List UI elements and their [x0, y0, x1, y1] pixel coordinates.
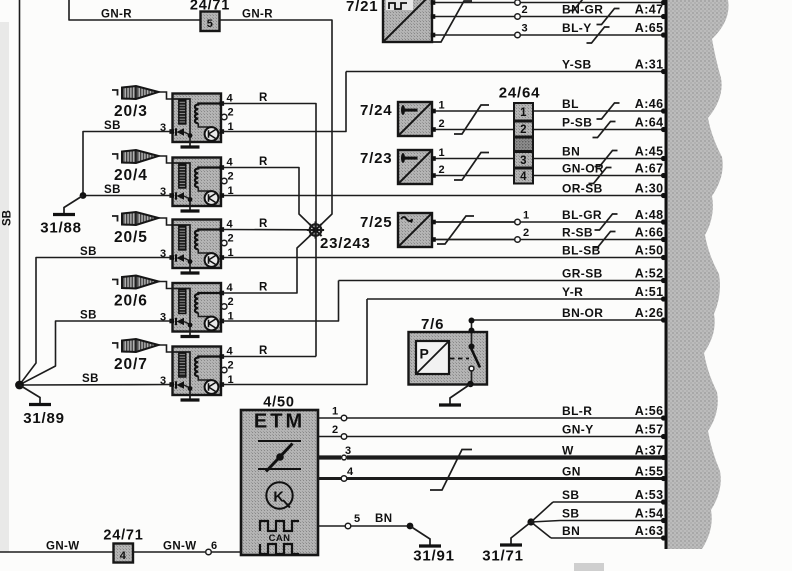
wire BL to A:46: [533, 97, 666, 119]
junction on SB wire: [80, 192, 87, 199]
svg-text:3: 3: [520, 155, 527, 167]
svg-text:BL-Y: BL-Y: [562, 21, 592, 35]
wire GN-W from left: [0, 541, 113, 553]
connector slash after 7/21: [433, 1, 472, 42]
svg-text:GN: GN: [562, 464, 581, 478]
svg-text:24/71: 24/71: [190, 0, 230, 14]
wire SB from 20/4 pin3: [83, 184, 172, 196]
svg-text:BL-R: BL-R: [562, 404, 592, 418]
wire SB vertical bus at left: [2, 0, 20, 385]
svg-text:31/88: 31/88: [40, 220, 82, 237]
svg-text:24/64: 24/64: [499, 85, 541, 102]
svg-text:2: 2: [228, 107, 235, 119]
ground node 31/89: [15, 381, 65, 427]
svg-text:A:30: A:30: [635, 181, 664, 195]
svg-text:1: 1: [439, 147, 446, 159]
scan artifact bottom right: [574, 563, 604, 571]
svg-text:2: 2: [228, 171, 235, 183]
ETM pin 4: [318, 466, 354, 481]
wire R from 20/6 pin4 to node: [222, 233, 314, 294]
svg-text:A:54: A:54: [635, 506, 664, 520]
svg-text:SB: SB: [80, 246, 97, 258]
wire GN-R feed from top: [69, 0, 200, 21]
svg-text:ETM: ETM: [254, 411, 305, 433]
ignition coil 20/5: [112, 212, 234, 273]
svg-text:20/3: 20/3: [114, 103, 148, 120]
svg-text:2: 2: [520, 124, 527, 136]
svg-text:A:52: A:52: [635, 266, 664, 280]
svg-text:GN-R: GN-R: [101, 9, 132, 21]
ECU connector torn-edge band: [666, 0, 729, 549]
svg-text:23/243: 23/243: [320, 235, 371, 252]
svg-text:A:63: A:63: [635, 524, 664, 538]
svg-text:2: 2: [228, 360, 235, 372]
svg-text:SB: SB: [80, 310, 97, 322]
svg-text:3: 3: [345, 445, 352, 457]
svg-text:GN-W: GN-W: [46, 541, 80, 553]
svg-text:K: K: [273, 490, 284, 506]
wire BN to A:63: [551, 524, 666, 541]
svg-text:OR-SB: OR-SB: [562, 181, 603, 195]
svg-text:31/89: 31/89: [23, 410, 65, 427]
fuse 24/71 (position 4): [103, 528, 143, 563]
wire GN-R from fuse to node 23/243: [220, 9, 333, 229]
svg-text:Y-SB: Y-SB: [562, 57, 592, 71]
svg-text:20/5: 20/5: [114, 229, 148, 246]
ignition coil 20/4: [112, 150, 234, 211]
svg-text:A:37: A:37: [635, 443, 664, 457]
svg-text:A:66: A:66: [635, 225, 664, 239]
wire SB from 20/5 pin3: [21, 246, 172, 384]
wire from 20/7 pin1 up to Y-R row: [222, 299, 367, 385]
wire row to ECU: [432, 0, 666, 11]
ground 31/88: [40, 196, 83, 237]
svg-text:GN-Y: GN-Y: [562, 422, 594, 436]
svg-text:2: 2: [228, 233, 235, 245]
svg-text:4: 4: [120, 550, 127, 562]
svg-text:BN: BN: [375, 513, 392, 525]
throttle module 4/50 ETM: [241, 395, 318, 556]
svg-text:A:26: A:26: [635, 306, 664, 320]
svg-text:Y-R: Y-R: [562, 285, 583, 299]
wire SB from 20/7 pin3: [20, 373, 172, 385]
wire Y-R to A:51: [367, 285, 666, 302]
svg-text:4: 4: [347, 466, 354, 478]
svg-text:6: 6: [211, 540, 218, 552]
wire R from 20/7 pin4: [222, 345, 316, 357]
svg-text:31/91: 31/91: [413, 548, 455, 565]
connector slash on W/GN wires: [430, 450, 472, 491]
pin circles of 7/21 harness: [515, 0, 528, 38]
svg-text:SB: SB: [104, 184, 121, 196]
svg-text:GN-W: GN-W: [163, 541, 197, 553]
svg-text:2: 2: [439, 164, 446, 176]
svg-text:A:48: A:48: [635, 208, 664, 222]
svg-text:4/50: 4/50: [263, 395, 294, 411]
svg-text:1: 1: [439, 100, 446, 112]
wire BL-Y to A:65: [432, 21, 666, 43]
ETM pin 5 wire BN to ground 31/91: [318, 513, 410, 529]
svg-text:GR-SB: GR-SB: [562, 266, 603, 280]
svg-text:BN-GR: BN-GR: [562, 2, 603, 16]
svg-text:2: 2: [332, 424, 339, 436]
control unit 7/21: [346, 0, 435, 42]
node 23/243 junction: [307, 221, 371, 252]
wire SB to A:53: [553, 488, 666, 505]
wire R from 20/4 pin4 to node: [222, 156, 314, 228]
svg-text:A:64: A:64: [635, 115, 664, 129]
svg-text:7/21: 7/21: [346, 0, 378, 15]
svg-text:1: 1: [228, 185, 235, 197]
svg-text:2: 2: [522, 4, 529, 16]
svg-text:20/4: 20/4: [114, 167, 148, 184]
svg-text:5: 5: [207, 18, 214, 30]
wire BL-GR to A:48: [432, 208, 666, 230]
wire OR-SB to A:30: [221, 181, 666, 198]
svg-text:A:57: A:57: [635, 422, 664, 436]
svg-text:24/71: 24/71: [103, 528, 143, 544]
wire from 20/3 pin1 up to Y-SB row: [222, 72, 346, 132]
wire GR-SB to A:52: [339, 266, 667, 283]
fuse 24/71 (position 5): [190, 0, 230, 31]
svg-text:2: 2: [228, 296, 235, 308]
pressure switch 7/6: [409, 316, 488, 385]
svg-text:W: W: [562, 443, 574, 457]
ETM pin 3: [318, 445, 352, 460]
svg-text:1: 1: [520, 107, 527, 119]
wire BN-GR to A:47: [432, 2, 666, 24]
injector 7/23: [360, 147, 514, 184]
ignition coil 20/3: [112, 86, 234, 147]
svg-text:SB: SB: [562, 506, 579, 520]
svg-text:A:56: A:56: [635, 404, 664, 418]
svg-text:R: R: [259, 282, 268, 294]
wire from 20/6 pin1 up to GR-SB row: [222, 281, 339, 322]
svg-text:A:67: A:67: [635, 161, 664, 175]
svg-text:R: R: [259, 345, 268, 357]
svg-text:5: 5: [354, 513, 361, 525]
svg-text:R: R: [259, 92, 268, 104]
svg-text:2: 2: [439, 118, 446, 130]
wire GN to A:55: [347, 464, 666, 481]
wire GN-W to ETM pin 6: [133, 540, 241, 555]
wire Y-SB to A:31: [346, 57, 666, 74]
svg-text:BL-SB: BL-SB: [562, 243, 601, 257]
wire GN-OR to A:67: [533, 161, 666, 183]
svg-text:BL-GR: BL-GR: [562, 208, 602, 222]
svg-text:7/24: 7/24: [360, 102, 392, 119]
sensor 7/25: [360, 210, 530, 248]
svg-text:R: R: [259, 156, 268, 168]
svg-text:A:53: A:53: [635, 488, 664, 502]
svg-text:20/7: 20/7: [114, 356, 148, 373]
svg-text:SB: SB: [2, 210, 14, 226]
svg-text:A:47: A:47: [635, 2, 664, 16]
svg-text:SB: SB: [104, 120, 121, 132]
svg-text:BN: BN: [562, 524, 580, 538]
ignition coil 20/7: [112, 339, 234, 400]
wire W to A:37: [347, 443, 666, 460]
svg-text:A:50: A:50: [635, 243, 664, 257]
connector 24/64: [499, 85, 541, 184]
svg-text:1: 1: [332, 406, 339, 418]
ground of 7/6: [439, 381, 474, 405]
svg-text:GN-OR: GN-OR: [562, 161, 604, 175]
wire SB to A:54: [560, 506, 666, 523]
svg-text:BN-OR: BN-OR: [562, 306, 603, 320]
svg-text:CAN: CAN: [269, 533, 291, 544]
svg-text:7/25: 7/25: [360, 214, 392, 231]
ETM pin 1: [318, 406, 347, 421]
ETM pin 2: [318, 424, 347, 439]
svg-text:3: 3: [522, 23, 529, 35]
wire GN-Y to A:57: [347, 422, 666, 439]
injector 7/24: [360, 100, 514, 137]
svg-text:4: 4: [227, 219, 234, 231]
svg-text:31/71: 31/71: [482, 548, 524, 565]
ground 31/71 with SB/SB/BN fan: [482, 502, 560, 565]
ignition coil 20/6: [112, 276, 234, 337]
svg-text:BN: BN: [562, 144, 580, 158]
svg-text:1: 1: [228, 247, 235, 259]
svg-text:2: 2: [523, 227, 530, 239]
svg-text:A:46: A:46: [635, 97, 664, 111]
svg-text:P: P: [420, 346, 430, 362]
svg-text:BL: BL: [562, 97, 579, 111]
wire BL-R to A:56: [347, 404, 666, 421]
svg-text:A:55: A:55: [635, 464, 664, 478]
svg-text:7/6: 7/6: [421, 316, 444, 333]
svg-text:SB: SB: [82, 373, 99, 385]
wire R from 20/5 pin4 to node: [222, 218, 310, 230]
svg-text:GN-R: GN-R: [242, 9, 273, 21]
wire R from 20/3 pin4 to node: [222, 92, 316, 357]
svg-text:4: 4: [520, 171, 527, 183]
svg-text:1: 1: [523, 210, 530, 222]
svg-text:R-SB: R-SB: [562, 225, 593, 239]
wire SB from 20/6 pin3: [21, 310, 172, 385]
svg-text:20/6: 20/6: [114, 293, 148, 310]
svg-text:A:45: A:45: [635, 144, 664, 158]
wire BL-SB to A:50: [221, 243, 666, 260]
svg-text:A:31: A:31: [635, 57, 664, 71]
svg-text:A:51: A:51: [635, 285, 664, 299]
svg-text:R: R: [259, 218, 268, 230]
svg-text:P-SB: P-SB: [562, 115, 592, 129]
wire SB from 20/3 pin3: [83, 120, 172, 196]
wire BN to A:45: [533, 144, 666, 166]
wire R-SB to A:66: [432, 225, 666, 247]
wire P-SB to A:64: [533, 115, 666, 137]
svg-text:SB: SB: [562, 488, 579, 502]
ground 31/91: [407, 523, 455, 565]
wire BN-OR to A:26: [472, 306, 667, 323]
wire from BN-OR row down to 7/6: [469, 318, 475, 334]
svg-text:A:65: A:65: [635, 21, 664, 35]
svg-text:7/23: 7/23: [360, 150, 392, 167]
